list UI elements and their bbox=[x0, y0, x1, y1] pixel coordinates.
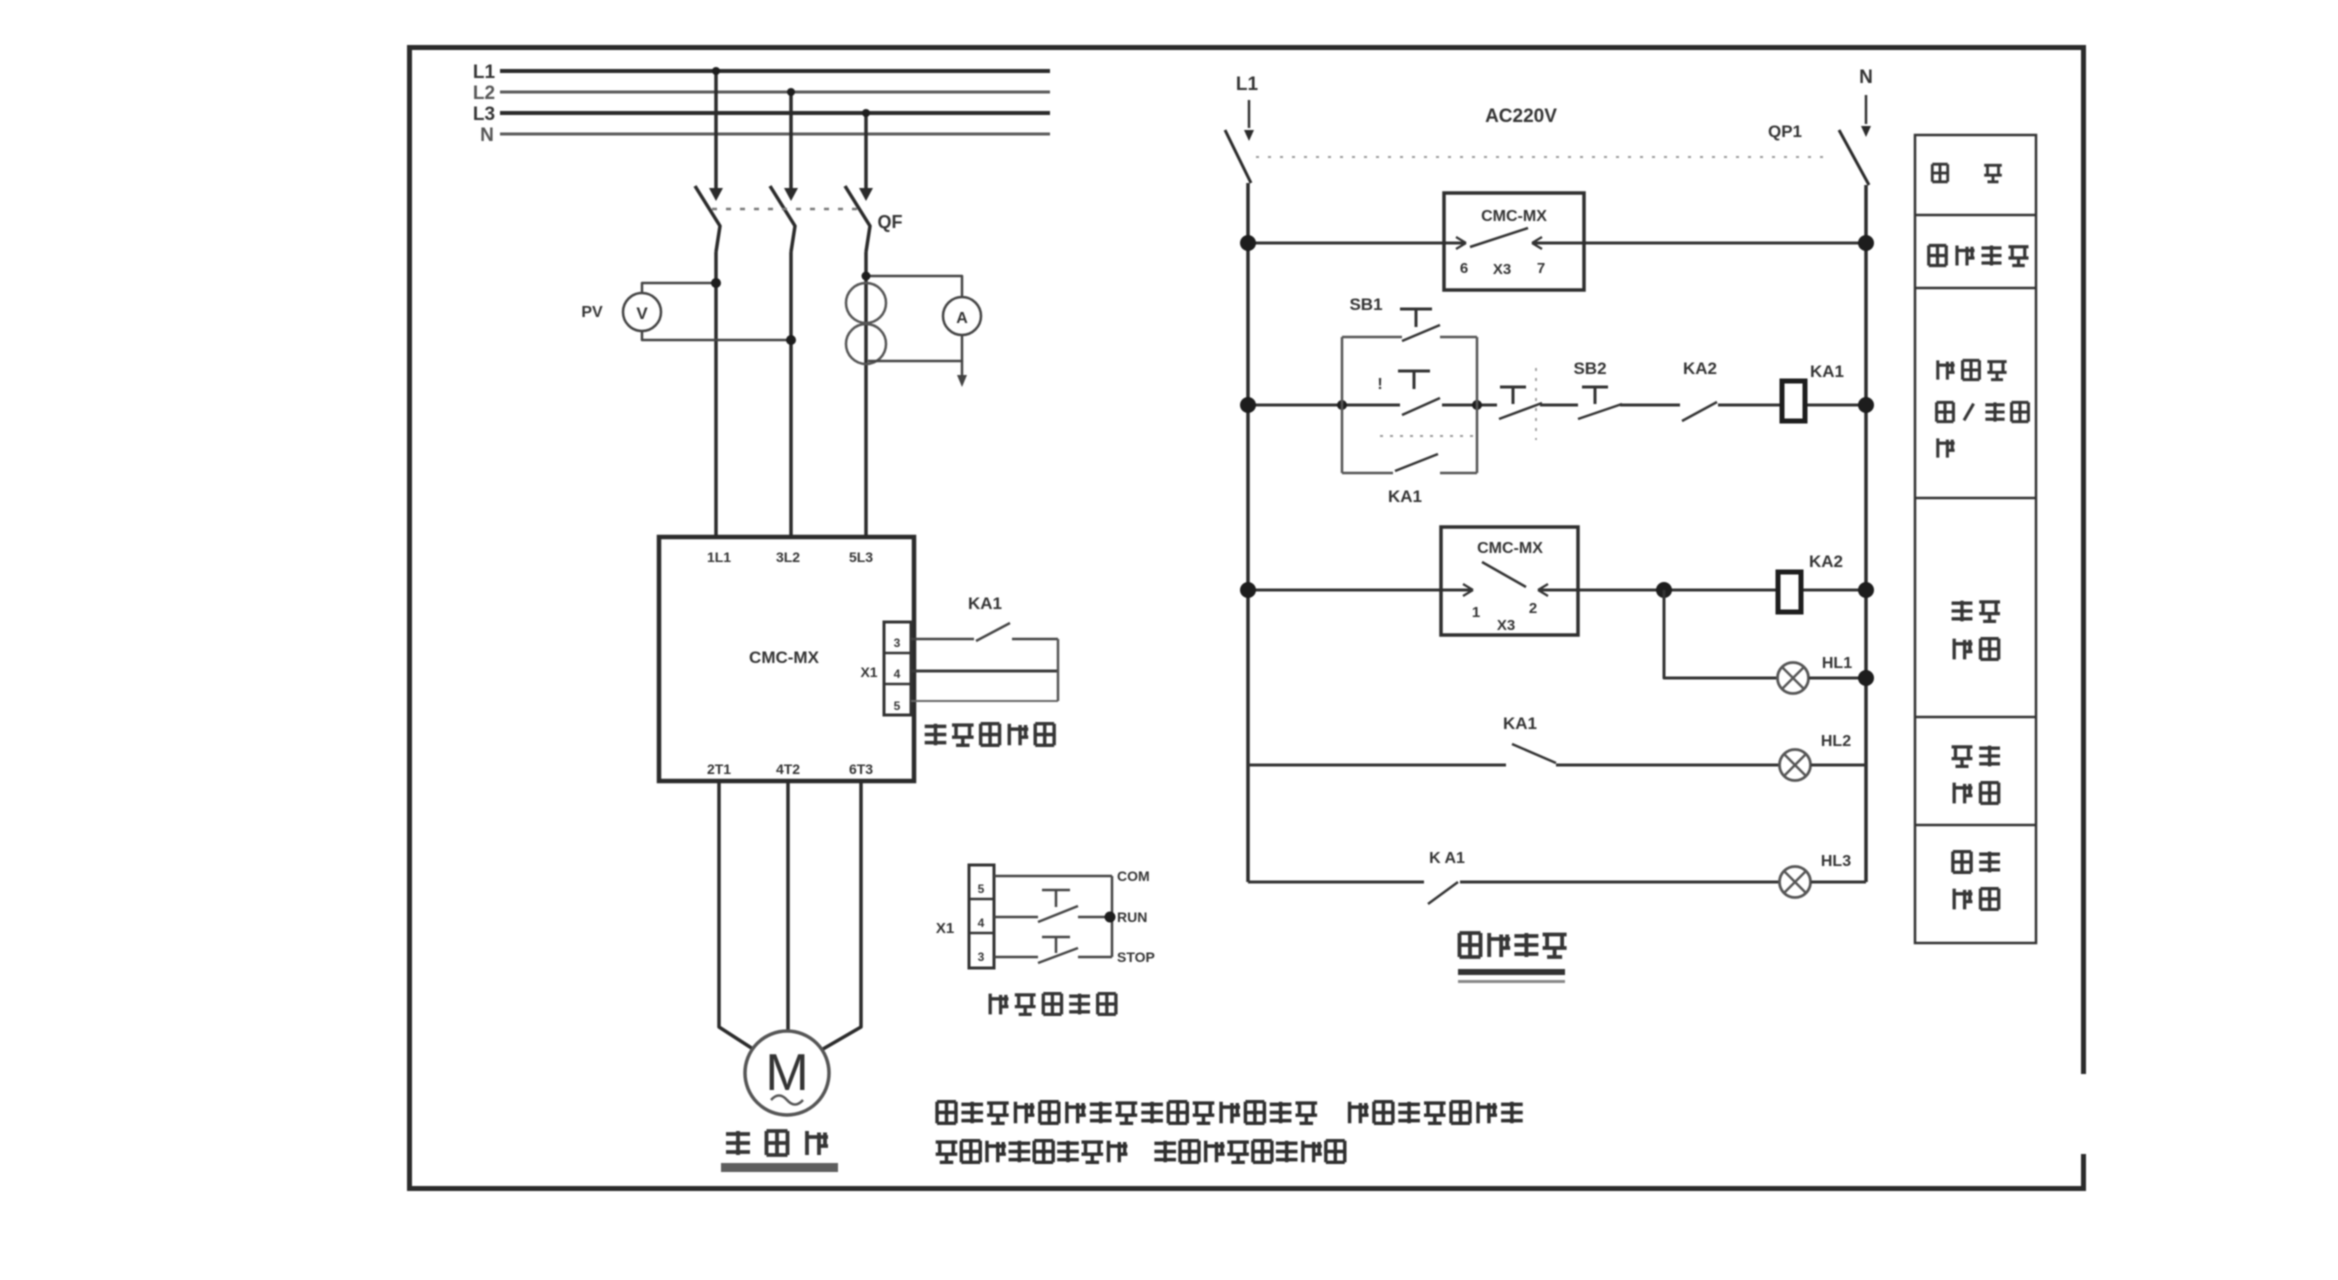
wire drop from L2 bbox=[789, 92, 793, 188]
svg-text:5L3: 5L3 bbox=[849, 549, 873, 565]
terminal block X1 bbox=[884, 622, 911, 715]
breaker QF pole 1 blade bbox=[695, 186, 720, 252]
wire PV bottom bbox=[642, 331, 789, 340]
button linked stem bbox=[1512, 387, 1515, 404]
rung2 wire e bbox=[1718, 404, 1782, 407]
label shuang-jie-dian-kong-zhi bbox=[990, 994, 1008, 1015]
rung3 wire left bbox=[1248, 589, 1473, 592]
bus L3 bbox=[500, 111, 1050, 115]
svg-text:3L2: 3L2 bbox=[776, 549, 800, 565]
wire CT to ammeter bbox=[866, 276, 962, 298]
dashed linkage AC line bbox=[1256, 156, 1828, 158]
right rail N bbox=[1864, 185, 1868, 882]
svg-text:CMC-MX: CMC-MX bbox=[1477, 540, 1543, 557]
wire X1-4 bbox=[911, 670, 1058, 673]
rung4 wire right bbox=[1811, 764, 1866, 767]
rung2 wire f bbox=[1805, 404, 1866, 407]
button STOP stem bbox=[1055, 937, 1058, 953]
arrow L3 bbox=[859, 188, 873, 201]
svg-text:5: 5 bbox=[894, 699, 901, 713]
contact KA2 blade bbox=[1682, 402, 1717, 421]
svg-text:2: 2 bbox=[1529, 600, 1537, 617]
svg-text:AC220V: AC220V bbox=[1485, 106, 1557, 127]
contact linked blade bbox=[1499, 403, 1542, 419]
button SB2 stem bbox=[1594, 387, 1597, 404]
wire N entry bbox=[1865, 95, 1868, 124]
lamp HL3 bbox=[1780, 867, 1811, 898]
wire HL1 branch bbox=[1664, 590, 1777, 678]
bus L2 bbox=[500, 91, 1050, 94]
legend ruan-qi-dong bbox=[1938, 360, 1955, 379]
rung2 wire d bbox=[1620, 404, 1680, 407]
rung5 wire right bbox=[1811, 881, 1866, 884]
contact SB1 mid blade bbox=[1402, 398, 1440, 415]
svg-text:X3: X3 bbox=[1493, 261, 1511, 278]
contact KA1 nc blade bbox=[1428, 882, 1458, 904]
svg-text:KA1: KA1 bbox=[1503, 714, 1537, 733]
bus L1 bbox=[500, 69, 1050, 73]
note line 2 bbox=[936, 1142, 958, 1162]
svg-text:L1: L1 bbox=[473, 62, 496, 83]
border frame bbox=[410, 48, 2084, 1189]
svg-text:N: N bbox=[1859, 67, 1873, 88]
label dan-jie-dian-kong-zhi bbox=[925, 724, 947, 746]
junction SB1 box right bbox=[1472, 400, 1482, 410]
svg-text:!: ! bbox=[1377, 376, 1382, 393]
legend ting-zhi bbox=[1953, 852, 1971, 873]
svg-text:4: 4 bbox=[894, 667, 901, 681]
wire drop from L1 bbox=[714, 71, 718, 188]
arrow N bbox=[1861, 126, 1871, 137]
rung2 wire a bbox=[1248, 404, 1400, 407]
wire pole 2 down bbox=[789, 252, 793, 537]
button RUN stem bbox=[1055, 890, 1058, 907]
button SB1 mid stem bbox=[1413, 371, 1416, 389]
CMC-MX contact box 6-7 bbox=[1444, 193, 1584, 290]
dashed link vertical bbox=[1535, 368, 1537, 440]
legend table bbox=[1915, 135, 2036, 943]
button STOP cap bbox=[1042, 936, 1070, 939]
wire RUN right bbox=[1078, 916, 1112, 919]
rung2 wire b bbox=[1442, 404, 1497, 407]
svg-text:CMC-MX: CMC-MX bbox=[1481, 208, 1547, 225]
junction PV-L2drop bbox=[786, 335, 796, 345]
rung1 wire left bbox=[1248, 242, 1464, 245]
svg-text:1L1: 1L1 bbox=[707, 549, 731, 565]
contact KA1 hold blade bbox=[1395, 454, 1438, 471]
svg-text:4: 4 bbox=[978, 916, 985, 930]
note line 1 bbox=[937, 1102, 956, 1124]
svg-text:5: 5 bbox=[978, 882, 985, 896]
svg-text:KA2: KA2 bbox=[1809, 552, 1843, 571]
wire 4T2 to motor bbox=[786, 781, 790, 1031]
SB1 box right bbox=[1476, 337, 1479, 473]
contact 1 arrow bbox=[1463, 584, 1473, 590]
relay coil KA1 bbox=[1782, 381, 1805, 421]
svg-text:1: 1 bbox=[1472, 604, 1480, 621]
wire ammeter bottom bbox=[868, 335, 962, 361]
svg-text:KA1: KA1 bbox=[1388, 487, 1422, 506]
wire X1-5 bbox=[911, 700, 1058, 702]
legend yun-xing bbox=[1952, 747, 1973, 767]
SB1 box left bbox=[1341, 337, 1344, 473]
junction L3 bbox=[862, 109, 870, 117]
SB1 box top a bbox=[1342, 336, 1402, 339]
arrow L1 bbox=[1244, 130, 1254, 141]
svg-text:QF: QF bbox=[878, 212, 903, 232]
svg-text:6T3: 6T3 bbox=[849, 761, 873, 777]
svg-text:2T1: 2T1 bbox=[707, 761, 731, 777]
legend zhi-shi bbox=[1954, 639, 1972, 660]
arrow L2 bbox=[784, 188, 798, 201]
legend zhi-shi 2 bbox=[1954, 783, 1972, 804]
contact 2 arrow bbox=[1538, 584, 1548, 590]
breaker QF pole 2 blade bbox=[770, 186, 795, 252]
junction L1 bbox=[712, 67, 720, 75]
svg-text:4T2: 4T2 bbox=[776, 761, 800, 777]
svg-text:A: A bbox=[956, 310, 968, 327]
svg-text:M: M bbox=[765, 1044, 808, 1102]
wire ammeter earth bbox=[961, 361, 964, 377]
button SB1 top cap bbox=[1400, 308, 1432, 311]
svg-text:L1: L1 bbox=[1236, 74, 1259, 95]
junction RUN bbox=[1105, 912, 1116, 923]
QF linkage dashed bbox=[712, 208, 858, 211]
lamp HL1 bbox=[1778, 663, 1809, 694]
svg-text:7: 7 bbox=[1537, 260, 1545, 277]
terminal block X1 lower bbox=[969, 865, 994, 968]
legend kong-zhi-dian-yuan bbox=[1929, 246, 1947, 266]
switch blade L1 bbox=[1225, 130, 1251, 183]
contact 7 arrow bbox=[1532, 237, 1542, 243]
ammeter PA bbox=[943, 297, 981, 335]
svg-text:COM: COM bbox=[1117, 868, 1150, 884]
wire STOP left bbox=[994, 956, 1038, 959]
underline1 bbox=[1458, 980, 1565, 983]
arrow L1 bbox=[709, 188, 723, 201]
contact blade 6-7 bbox=[1470, 228, 1528, 247]
junction rung2 right bbox=[1858, 397, 1874, 413]
label kong-zhi-hui-lu bbox=[1460, 933, 1481, 957]
soft starter U1 CMC-MX box bbox=[659, 537, 914, 781]
table row line bbox=[1915, 716, 2036, 719]
svg-text:CMC-MX: CMC-MX bbox=[749, 648, 820, 667]
table row line bbox=[1915, 824, 2036, 827]
junction rung1 right bbox=[1858, 235, 1874, 251]
svg-text:L3: L3 bbox=[473, 104, 495, 125]
junction HL1 bbox=[1858, 670, 1874, 686]
bus N bbox=[500, 133, 1050, 136]
wire COM bbox=[994, 875, 1112, 878]
voltmeter PV bbox=[623, 293, 661, 331]
junction rung3 tee bbox=[1656, 582, 1672, 598]
wire pole 3 down bbox=[864, 252, 868, 537]
svg-text:KA1: KA1 bbox=[1810, 362, 1844, 381]
rung1 wire right bbox=[1534, 242, 1866, 245]
contact blade 1-2 bbox=[1482, 562, 1526, 587]
rung5 wire left bbox=[1248, 881, 1424, 884]
breaker QP1 blade bbox=[1839, 130, 1869, 185]
legend zhi bbox=[1938, 438, 1955, 457]
junction PV-L1drop bbox=[711, 278, 721, 288]
junction rung3 left bbox=[1240, 582, 1256, 598]
junction rung1 left bbox=[1240, 235, 1256, 251]
svg-text:X1: X1 bbox=[860, 664, 877, 680]
rung3 wire mid bbox=[1540, 589, 1778, 592]
svg-text:3: 3 bbox=[894, 636, 901, 650]
legend qi-ting-kong bbox=[1937, 402, 1954, 421]
svg-text:N: N bbox=[480, 125, 494, 146]
contact SB1 top blade bbox=[1402, 325, 1440, 341]
legend gu-zhang bbox=[1952, 601, 1973, 622]
button SB2 cap bbox=[1582, 386, 1608, 389]
lamp HL2 bbox=[1780, 750, 1811, 781]
breaker QF pole 3 blade bbox=[845, 186, 870, 252]
svg-text:QP1: QP1 bbox=[1768, 122, 1802, 141]
SB1 box top b bbox=[1440, 336, 1477, 339]
wire 2T1 to motor bbox=[719, 781, 753, 1049]
motor M bbox=[745, 1031, 829, 1115]
svg-text:PV: PV bbox=[581, 304, 603, 321]
junction CT top bbox=[862, 272, 871, 281]
svg-text:STOP: STOP bbox=[1117, 949, 1155, 965]
svg-text:K A1: K A1 bbox=[1429, 850, 1465, 867]
svg-text:V: V bbox=[636, 304, 648, 323]
svg-text:KA2: KA2 bbox=[1683, 359, 1717, 378]
wire drop from L3 bbox=[864, 113, 868, 188]
legend wei bbox=[1932, 164, 1947, 182]
svg-text:X3: X3 bbox=[1497, 617, 1515, 634]
junction SB1 box left bbox=[1337, 400, 1347, 410]
SB1 box bottom b bbox=[1440, 472, 1477, 475]
bracket bbox=[1057, 639, 1060, 701]
wire HL1 right bbox=[1809, 677, 1866, 680]
wire common vertical bbox=[1111, 876, 1114, 957]
svg-text:L2: L2 bbox=[473, 83, 495, 104]
svg-text:HL1: HL1 bbox=[1822, 655, 1852, 672]
CT coil lower bbox=[846, 324, 886, 364]
svg-text:SB1: SB1 bbox=[1349, 295, 1382, 314]
rung4 wire left bbox=[1248, 764, 1506, 767]
svg-text:HL2: HL2 bbox=[1821, 733, 1851, 750]
junction rung2 left bbox=[1240, 397, 1256, 413]
svg-text:X1: X1 bbox=[936, 920, 954, 937]
rung3 wire right bbox=[1801, 589, 1866, 592]
rung4 wire mid bbox=[1556, 764, 1779, 767]
wire L1 entry bbox=[1248, 100, 1251, 128]
table row line bbox=[1915, 287, 2036, 290]
svg-text:RUN: RUN bbox=[1117, 909, 1147, 925]
rung5 wire mid bbox=[1460, 881, 1779, 884]
table row line bbox=[1915, 497, 2036, 500]
svg-text:SB2: SB2 bbox=[1573, 359, 1606, 378]
junction rung3 right bbox=[1858, 582, 1874, 598]
button RUN cap bbox=[1042, 889, 1070, 892]
wire X1-3 bbox=[911, 638, 974, 641]
relay coil KA2 bbox=[1778, 572, 1801, 612]
wire KA1 to bracket bbox=[1012, 638, 1058, 641]
legend zhi-shi 3 bbox=[1954, 889, 1972, 910]
wire STOP right bbox=[1078, 956, 1112, 959]
contact 6 arrow bbox=[1456, 237, 1466, 243]
button linked cap bbox=[1500, 386, 1526, 389]
button SB1 mid cap bbox=[1398, 370, 1430, 373]
button SB1 top stem bbox=[1415, 309, 1418, 327]
wire PV top bbox=[642, 283, 714, 293]
wire 6T3 to motor bbox=[823, 781, 861, 1049]
contact STOP blade bbox=[1038, 948, 1078, 963]
svg-text:KA1: KA1 bbox=[968, 594, 1002, 613]
contact KA1 run blade bbox=[1512, 744, 1556, 763]
CMC-MX contact box 1-2 bbox=[1441, 527, 1578, 635]
label zhu-hui-lu bbox=[726, 1131, 750, 1155]
left rail bbox=[1246, 183, 1250, 882]
svg-text:6: 6 bbox=[1460, 260, 1468, 277]
table row line bbox=[1915, 214, 2036, 217]
wire RUN left bbox=[994, 916, 1038, 919]
svg-text:3: 3 bbox=[978, 950, 985, 964]
SB1 box bottom a bbox=[1342, 472, 1393, 475]
junction L2 bbox=[787, 88, 795, 96]
contact SB2 blade bbox=[1578, 404, 1622, 419]
wire pole 1 down bbox=[714, 252, 718, 537]
contact RUN blade bbox=[1038, 906, 1078, 922]
CT coil upper bbox=[846, 283, 886, 323]
dashed link in SB1 box bbox=[1380, 435, 1474, 437]
rung2 wire c bbox=[1540, 404, 1578, 407]
svg-text:HL3: HL3 bbox=[1821, 853, 1851, 870]
contact KA1 blade bbox=[976, 623, 1010, 641]
